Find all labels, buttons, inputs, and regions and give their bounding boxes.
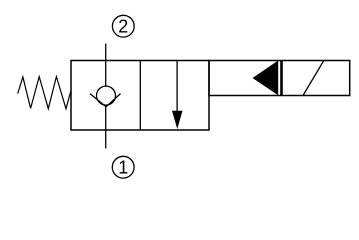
svg-text:2: 2 bbox=[118, 16, 128, 36]
svg-text:1: 1 bbox=[118, 157, 128, 177]
cell divider bbox=[139, 61, 141, 131]
spring bbox=[18, 77, 71, 109]
check valve ball C1 bbox=[97, 86, 116, 105]
solenoid box bbox=[209, 61, 350, 96]
flow path arrow wire bbox=[176, 61, 178, 113]
valve body box bbox=[71, 61, 209, 131]
port 2 label circle bbox=[112, 15, 134, 37]
port 2 stem wire bbox=[105, 44, 107, 87]
check valve seat bbox=[90, 94, 121, 107]
port 1 label circle bbox=[112, 156, 134, 178]
port 1 stem wire bbox=[105, 107, 107, 149]
flow path arrowhead bbox=[172, 111, 183, 129]
solenoid triangle bbox=[253, 61, 279, 96]
solenoid slash bbox=[303, 60, 324, 95]
solenoid armature bar bbox=[280, 61, 283, 96]
